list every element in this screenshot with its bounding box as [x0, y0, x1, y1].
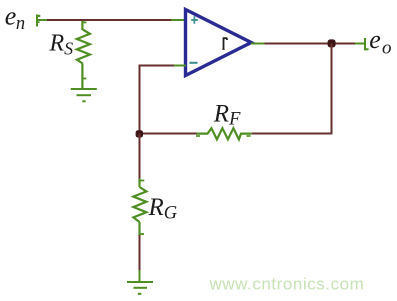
wire e_n to op-amp: [47, 19, 172, 21]
wire op-amp minus pin stub: [173, 65, 186, 67]
wire junction to RG: [139, 134, 141, 181]
label RG: [148, 194, 178, 224]
op-amp U1: [186, 10, 252, 76]
label RS: [49, 30, 74, 58]
wire op-amp plus pin stub: [171, 19, 186, 21]
junction node output: [328, 39, 336, 47]
wire feedback vertical: [331, 44, 333, 134]
wire minus input horizontal: [139, 65, 175, 67]
wire feedback right segment: [252, 133, 333, 135]
label RF: [213, 101, 241, 130]
svg-text:RF: RF: [213, 101, 241, 130]
resistor RS: [77, 21, 90, 89]
resistor RG: [133, 179, 146, 237]
svg-text:www.cntronics.com: www.cntronics.com: [209, 275, 365, 294]
svg-text:RG: RG: [148, 194, 178, 224]
wire minus input vertical down: [139, 65, 141, 134]
wire output to terminal: [265, 43, 357, 45]
ground for RG: [127, 282, 153, 294]
terminal e_o: [365, 38, 369, 50]
wire RG to ground: [139, 235, 141, 271]
svg-text:RS: RS: [49, 30, 74, 58]
wire op-amp output green stub: [251, 43, 265, 45]
svg-text:en: en: [5, 2, 25, 34]
wire input green stub left: [36, 19, 48, 21]
ground for RS: [71, 89, 97, 101]
resistor RF: [196, 128, 252, 139]
node e_n label: [5, 2, 25, 34]
wire ground green stub: [139, 270, 141, 282]
junction node inverting: [136, 130, 143, 137]
wire feedback left segment: [140, 133, 197, 135]
wire output green stub right: [355, 43, 365, 45]
terminal e_n: [37, 15, 40, 27]
node e_o label: [369, 25, 391, 58]
svg-text:eo: eo: [369, 25, 391, 58]
